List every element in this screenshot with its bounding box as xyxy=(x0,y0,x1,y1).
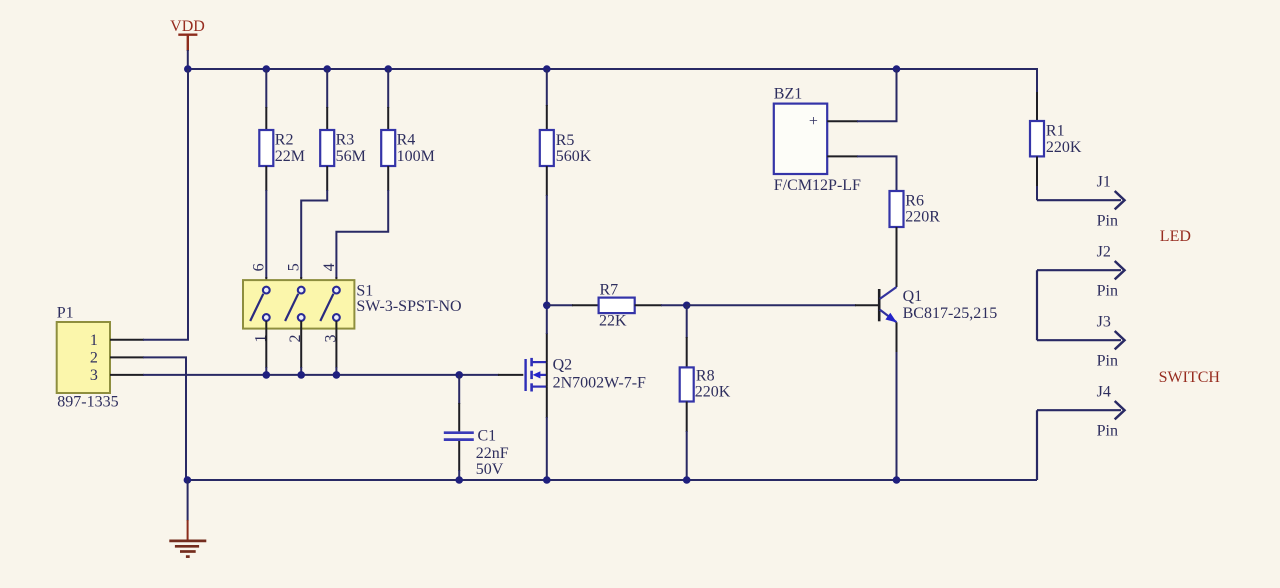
junction Q1 emitter bottom xyxy=(893,476,901,484)
wire BZ1 minus to R6 xyxy=(857,156,897,191)
svg-text:3: 3 xyxy=(90,367,98,384)
wire P1 pin2 to ground bus xyxy=(143,357,186,480)
svg-text:BC817-25,215: BC817-25,215 xyxy=(903,305,998,322)
svg-text:+: + xyxy=(809,113,818,130)
wire J4 to ground bus xyxy=(1036,410,1038,480)
wire top VDD bus xyxy=(188,69,1037,121)
resistor R5 xyxy=(540,69,592,305)
svg-text:560K: 560K xyxy=(556,148,592,165)
wire R7 to Q1 base xyxy=(687,304,856,306)
wire S1 pole B bottom xyxy=(300,321,302,368)
port J4 xyxy=(1037,383,1125,439)
svg-text:J2: J2 xyxy=(1097,243,1111,260)
wire J2-J3 xyxy=(1036,270,1038,340)
junction S1 pole B bus xyxy=(297,371,305,379)
svg-text:2N7002W-7-F: 2N7002W-7-F xyxy=(553,374,646,391)
junction R5 top xyxy=(543,65,551,73)
junction VDD-P1 xyxy=(184,65,192,73)
svg-text:R1: R1 xyxy=(1046,122,1065,139)
svg-text:F/CM12P-LF: F/CM12P-LF xyxy=(774,177,861,194)
svg-text:Pin: Pin xyxy=(1097,422,1118,439)
svg-text:22M: 22M xyxy=(275,148,305,165)
junction R7-R8 xyxy=(683,302,691,310)
junction R5-Q2-R7 xyxy=(543,302,551,310)
junction R4 top xyxy=(384,65,392,73)
svg-text:Pin: Pin xyxy=(1097,282,1118,299)
svg-text:R3: R3 xyxy=(336,132,355,149)
svg-text:5: 5 xyxy=(286,263,303,271)
wire P1 pin3 switch bus xyxy=(143,374,499,376)
transistor Q2 (NMOS) xyxy=(526,357,646,392)
ground xyxy=(169,480,206,557)
svg-text:Pin: Pin xyxy=(1097,352,1118,369)
junction C1 top xyxy=(455,371,463,379)
svg-text:C1: C1 xyxy=(478,428,497,445)
port J1 xyxy=(1037,173,1125,229)
svg-text:220R: 220R xyxy=(905,209,940,226)
svg-text:Q2: Q2 xyxy=(553,357,573,374)
svg-text:VDD: VDD xyxy=(170,18,205,35)
connector P1 xyxy=(57,305,119,411)
wire BZ1 plus to VDD xyxy=(857,69,897,121)
wire Q2 drain xyxy=(546,333,548,362)
junction S1 pole C bus xyxy=(333,371,341,379)
switch S1 body xyxy=(243,280,462,329)
capacitor C1 xyxy=(444,375,509,480)
pin Q1 base stub xyxy=(855,304,879,306)
junction ground-P1 xyxy=(184,476,192,484)
svg-text:56M: 56M xyxy=(336,148,366,165)
svg-text:2: 2 xyxy=(90,350,98,367)
svg-text:LED: LED xyxy=(1160,228,1191,245)
svg-text:22K: 22K xyxy=(599,313,627,330)
svg-text:6: 6 xyxy=(251,263,268,271)
port J3 xyxy=(1037,313,1125,369)
svg-text:R2: R2 xyxy=(275,132,294,149)
wire P1 pin1 to VDD xyxy=(143,69,188,340)
svg-text:4: 4 xyxy=(321,263,338,271)
resistor R1 xyxy=(1030,92,1082,200)
svg-text:50V: 50V xyxy=(476,461,504,478)
junction S1 pole A bus xyxy=(263,371,271,379)
svg-text:R8: R8 xyxy=(696,367,715,384)
svg-text:S1: S1 xyxy=(356,282,373,299)
pin BZ1 plus xyxy=(827,120,858,122)
svg-text:SW-3-SPST-NO: SW-3-SPST-NO xyxy=(356,298,461,315)
svg-text:J4: J4 xyxy=(1097,383,1111,400)
transistor Q1 (NPN) xyxy=(879,287,997,323)
junction R8 bottom xyxy=(683,476,691,484)
pin P1-1 stub xyxy=(110,339,144,341)
pin P1-3 stub xyxy=(110,374,144,376)
wire S1 pole C bottom xyxy=(335,321,337,368)
svg-text:BZ1: BZ1 xyxy=(774,86,802,103)
junction C1 bottom xyxy=(455,476,463,484)
wire ground bus xyxy=(187,479,1037,481)
svg-text:R4: R4 xyxy=(397,132,416,149)
resistor R6 xyxy=(890,191,941,287)
resistor R2 xyxy=(259,69,305,286)
port J2 xyxy=(1037,243,1125,299)
pin BZ1 minus xyxy=(827,155,858,157)
svg-text:R5: R5 xyxy=(556,132,575,149)
switch S1 pole A xyxy=(250,287,269,321)
resistor R8 xyxy=(680,305,731,480)
svg-text:220K: 220K xyxy=(695,383,731,400)
svg-text:SWITCH: SWITCH xyxy=(1159,369,1221,386)
svg-text:R7: R7 xyxy=(600,281,619,298)
svg-text:Q1: Q1 xyxy=(903,288,923,305)
svg-text:22nF: 22nF xyxy=(476,445,509,462)
svg-text:897-1335: 897-1335 xyxy=(57,393,118,410)
svg-text:J1: J1 xyxy=(1097,173,1111,190)
svg-text:R6: R6 xyxy=(905,192,924,209)
wire Q1 emitter xyxy=(896,322,898,353)
switch S1 pole B xyxy=(285,287,305,321)
resistor R3 xyxy=(301,69,366,286)
junction R3 top xyxy=(323,65,331,73)
power symbol VDD xyxy=(170,18,205,51)
svg-text:1: 1 xyxy=(90,332,98,349)
wire VDD stub xyxy=(187,50,189,69)
svg-text:100M: 100M xyxy=(397,148,435,165)
switch S1 pole C xyxy=(320,287,340,321)
junction Q2 source bottom xyxy=(543,476,551,484)
svg-text:220K: 220K xyxy=(1046,139,1082,156)
wire S1 pole A bottom xyxy=(265,321,267,368)
pin P1-2 stub xyxy=(110,356,144,358)
junction BZ1 top xyxy=(893,65,901,73)
buzzer BZ1 xyxy=(774,86,861,195)
resistor R7 xyxy=(547,281,687,329)
svg-text:P1: P1 xyxy=(57,305,74,322)
junction R2 top xyxy=(263,65,271,73)
wire Q2 source xyxy=(546,387,548,418)
pin Q2 gate stub xyxy=(498,374,523,376)
svg-text:Pin: Pin xyxy=(1097,212,1118,229)
svg-text:J3: J3 xyxy=(1097,313,1111,330)
resistor R4 xyxy=(336,69,434,286)
